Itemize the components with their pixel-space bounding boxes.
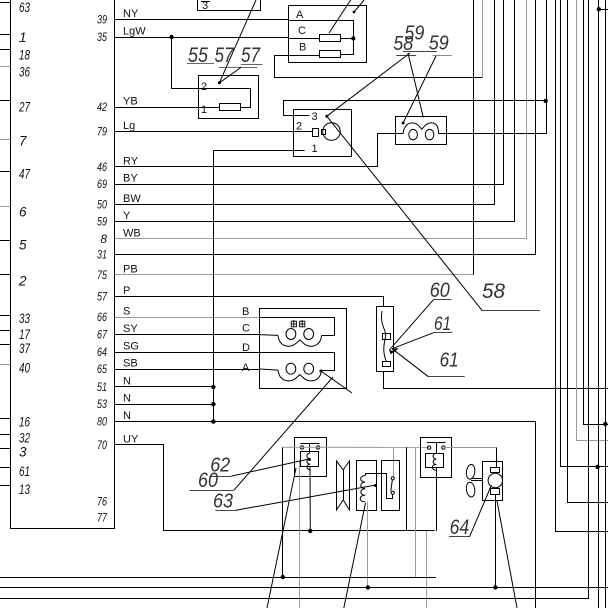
junction dot coil ground	[366, 585, 370, 589]
svg-text:D: D	[242, 342, 250, 354]
svg-text:79: 79	[97, 124, 107, 138]
svg-text:61: 61	[434, 314, 451, 335]
main relay contact stem	[309, 444, 311, 453]
svg-text:7: 7	[19, 134, 27, 149]
arrowhead at throttle switch 61	[392, 348, 399, 352]
junction dot main relay UY	[308, 529, 312, 533]
fan shaft line 2	[471, 480, 483, 482]
wire N pin53	[115, 404, 214, 406]
svg-text:C: C	[298, 25, 306, 37]
flasher coil right stub	[438, 133, 446, 135]
junction dot N80	[211, 419, 215, 423]
svg-text:2: 2	[296, 121, 302, 133]
bus wire exit y531 from v555	[556, 0, 608, 532]
ECU left pin stub wire y=364	[0, 364, 11, 366]
svg-text:18: 18	[19, 48, 30, 63]
svg-text:8: 8	[100, 232, 107, 246]
wire C to resistor	[289, 38, 320, 40]
gray riser of B path	[482, 0, 484, 78]
svg-text:6: 6	[19, 205, 27, 220]
svg-text:B: B	[299, 42, 306, 54]
leader dot flasher	[402, 122, 405, 125]
main relay terminal circle L	[300, 446, 303, 449]
leader 62 to main relay coil	[231, 459, 309, 476]
svg-text:1: 1	[201, 104, 207, 116]
leader 57 short	[219, 67, 241, 82]
resistor box 55 outline	[199, 76, 259, 119]
ECU left pin stub wire y=274	[0, 274, 11, 276]
label 58 underline2	[396, 55, 416, 57]
svg-text:Y: Y	[123, 210, 131, 222]
resistor R-C	[320, 35, 341, 42]
svg-text:60: 60	[430, 279, 450, 302]
flasher coil loop 1	[409, 129, 418, 139]
fan shaft line 1	[471, 478, 483, 480]
label 64 underline	[449, 536, 470, 538]
svg-text:3: 3	[19, 445, 27, 460]
ignition coil box outline	[357, 461, 377, 511]
svg-text:N: N	[123, 410, 131, 422]
lamp pin2 square contact	[313, 129, 319, 137]
top connector box (cut)	[198, 0, 261, 11]
junction dot N53	[211, 402, 215, 406]
junction dot exit y424	[603, 422, 607, 426]
svg-text:65: 65	[97, 362, 107, 376]
leader into box ACB from top	[355, 0, 365, 12]
ignition coil winding	[360, 476, 365, 502]
main relay terminal circle R	[316, 446, 319, 449]
svg-text:LgW: LgW	[123, 26, 146, 38]
leader 61 small	[392, 333, 433, 349]
svg-text:2: 2	[18, 274, 27, 289]
svg-text:YB: YB	[123, 96, 138, 108]
svg-text:C: C	[242, 323, 250, 335]
fan relay coil	[432, 453, 436, 470]
ECU left pin stub wire y=34	[0, 34, 11, 36]
ignition points feed gray drop	[393, 447, 395, 477]
svg-text:77: 77	[97, 511, 108, 525]
svg-text:BY: BY	[123, 173, 138, 185]
leader 57 long diagonal from top	[219, 0, 256, 83]
points lower contact circle	[391, 491, 394, 494]
svg-text:61: 61	[440, 350, 459, 372]
svg-text:5: 5	[19, 238, 27, 253]
ignition coil top wire to points	[366, 474, 393, 499]
wire YB pin42 to box55 pin1	[115, 107, 220, 109]
ECU left pin stub wire y=2	[0, 2, 11, 4]
fan relay wire to UY line	[436, 467, 438, 531]
svg-text:A: A	[242, 362, 250, 374]
label 57 second underline	[241, 64, 263, 66]
bus wire exit y503 from v567	[568, 0, 608, 503]
fan motor feed drop	[496, 447, 498, 467]
svg-text:A: A	[296, 9, 304, 21]
label 60 underline	[190, 490, 234, 492]
svg-text:2: 2	[201, 81, 207, 93]
ECU left pin stub wire y=344.5	[0, 344, 11, 346]
svg-text:59: 59	[97, 215, 107, 229]
points upper contact circle	[391, 477, 394, 480]
label 58 big underline	[481, 310, 540, 312]
junction dot feed rail	[281, 575, 285, 579]
svg-text:63: 63	[19, 0, 30, 15]
fan relay coil frame	[426, 454, 444, 468]
leader 60 big to throttle switch	[389, 299, 433, 350]
ECU left pin stub wire y=330.5	[0, 330, 11, 332]
svg-text:3: 3	[312, 111, 318, 123]
svg-text:UY: UY	[123, 433, 139, 445]
main relay coil frame	[301, 452, 319, 467]
resistor R55	[220, 104, 241, 111]
label 59 right underline	[433, 55, 452, 57]
wire BY pin69	[115, 0, 504, 185]
wire SB pin65	[115, 369, 260, 371]
svg-text:BW: BW	[123, 193, 141, 205]
svg-text:50: 50	[97, 197, 107, 211]
svg-text:66: 66	[97, 310, 107, 324]
leader dot 62	[308, 458, 311, 461]
flasher right wire	[446, 0, 547, 134]
svg-text:39: 39	[97, 13, 107, 27]
leader into box ACB second diagonal	[329, 0, 351, 33]
svg-text:37: 37	[19, 341, 30, 356]
svg-text:RY: RY	[123, 155, 139, 167]
wire PB vertical up	[473, 0, 475, 275]
wire SY pin67	[115, 334, 260, 336]
lamp pin3 stub	[284, 115, 310, 117]
fan relay terminal circle R	[442, 446, 445, 449]
bus wire exit y9 from v598	[599, 9, 608, 11]
label 62 underline	[210, 476, 232, 478]
leader dot in box55	[218, 81, 221, 84]
junction dot ACB	[351, 36, 355, 40]
bus gray wire exit y440	[577, 0, 608, 441]
ECU left pin stub wire y=485.5	[0, 485, 11, 487]
wire P below switch to bottom run	[384, 371, 608, 389]
label 61 big underline	[428, 376, 464, 378]
svg-text:N: N	[123, 393, 131, 405]
svg-text:46: 46	[97, 160, 107, 174]
ECU left pin stub wire y=448.5	[0, 448, 11, 450]
junction dot N51	[211, 385, 215, 389]
stepper idle coil upper	[286, 329, 296, 340]
label 57 bracket line	[219, 67, 257, 69]
junction dot exit y9	[597, 7, 601, 11]
stepper C wire into coil	[260, 334, 278, 337]
svg-text:42: 42	[97, 100, 107, 114]
wire BW pin50	[115, 0, 495, 205]
svg-text:53: 53	[97, 397, 107, 411]
ECU left pin stub wire y=467.5	[0, 467, 11, 469]
leader 60 to stepper coil	[234, 377, 333, 490]
stepper inner top path	[260, 318, 335, 336]
bus wire exit y424 from v583	[584, 0, 608, 425]
relay box ACB outline	[289, 6, 367, 63]
N tie vertical from lamp pin1	[213, 150, 215, 421]
svg-text:64: 64	[97, 345, 107, 359]
lamp bulb circle	[323, 123, 341, 141]
ground rail 1	[0, 577, 436, 579]
svg-text:75: 75	[97, 268, 107, 282]
svg-text:1: 1	[312, 143, 318, 155]
junction dot exit y467	[595, 465, 599, 469]
wire N pin51	[115, 386, 214, 388]
svg-text:P: P	[123, 285, 130, 297]
svg-text:PB: PB	[123, 263, 138, 275]
wire B path to gray riser	[275, 56, 483, 78]
lamp pin3 riser	[284, 101, 546, 116]
svg-text:16: 16	[19, 414, 30, 429]
wire resistor R-B up to junction	[341, 39, 354, 55]
points box outline	[382, 461, 400, 511]
wire B to resistor	[289, 55, 320, 57]
wire PB pin75 (gray)	[115, 274, 474, 276]
main relay contact bar	[300, 443, 319, 445]
svg-text:64: 64	[450, 516, 470, 539]
wire NY pin39	[115, 19, 289, 21]
svg-text:51: 51	[97, 380, 107, 394]
ECU left pin stub wire y=206	[0, 206, 11, 208]
leader 61 big	[392, 349, 428, 377]
throttle switch lower contact	[383, 362, 391, 367]
ECU left pin stub wire y=66	[0, 66, 11, 68]
junction dot on LgW wire	[169, 35, 173, 39]
main relay coil	[307, 453, 310, 470]
leader dot 63	[374, 484, 377, 487]
bus vertical v605	[605, 0, 607, 608]
label 61 small underline	[433, 332, 452, 334]
svg-text:13: 13	[19, 482, 30, 497]
ECU left pin stub wire y=434	[0, 434, 11, 436]
fan motor feed gray	[443, 447, 496, 449]
svg-text:35: 35	[97, 30, 107, 44]
flasher box outline	[396, 117, 447, 145]
svg-text:S: S	[123, 306, 130, 318]
lamp box outline	[294, 110, 352, 157]
leader 63 to ignition coil	[236, 485, 376, 510]
wire resistor R-C to junction	[341, 38, 354, 40]
wire WB pin8 (gray)	[115, 0, 527, 239]
wire S pin66 (gray)	[115, 317, 260, 319]
horn right blade	[343, 461, 349, 510]
lamp pin1 wire to N tie	[213, 150, 304, 152]
throttle switch upper contact	[383, 334, 391, 340]
label 60 big underline	[434, 299, 452, 301]
leader continuation through stepper corner	[321, 371, 352, 393]
fan relay box outline	[421, 438, 452, 478]
horn center line	[343, 470, 345, 500]
coil feed drop to UY line	[406, 447, 408, 531]
svg-text:57: 57	[241, 44, 261, 67]
svg-text:61: 61	[19, 464, 30, 479]
ECU left pin stub wire y=100	[0, 100, 11, 102]
main relay box outline	[295, 438, 327, 477]
branch wire LgW down to box55 pin2	[172, 37, 199, 89]
wire Lg pin79 to lamp box pin2	[115, 131, 313, 133]
svg-text:36: 36	[19, 65, 30, 80]
wire pin31	[115, 0, 536, 255]
stepper box outline	[260, 309, 347, 389]
ECU left pin stub wire y=49	[0, 49, 11, 51]
leader 59 top to flasher box	[408, 53, 423, 118]
ECU left pin stub wire y=240	[0, 240, 11, 242]
fan motor brush top	[491, 468, 500, 473]
junction dot lamp3 bus	[544, 99, 548, 103]
resistor R-B	[320, 51, 341, 58]
svg-text:31: 31	[97, 247, 107, 261]
ground rail 2	[0, 587, 608, 589]
stepper A wire into coil	[260, 369, 278, 370]
fan motor brush bottom	[491, 489, 500, 495]
ignition feed gray wire	[283, 446, 429, 448]
fan relay contact stem	[436, 442, 438, 453]
svg-text:57: 57	[97, 290, 108, 304]
leader dot ACB	[353, 11, 356, 14]
svg-text:33: 33	[19, 311, 30, 326]
svg-text:B: B	[242, 306, 249, 318]
svg-text:SB: SB	[123, 358, 138, 370]
leader dot 58 lamp	[325, 115, 328, 118]
ECU left pin stub wire y=418	[0, 418, 11, 420]
stepper idle coil lower	[286, 363, 296, 374]
ignition coil bottom gray wire	[367, 502, 369, 588]
bus vertical v598	[598, 0, 600, 608]
box55 internal wire pin2	[199, 89, 251, 108]
ignition coil leader to off-canvas	[344, 503, 366, 608]
stepper inner lower path	[260, 353, 335, 371]
wire LgW pin35	[115, 37, 289, 39]
throttle switch outline	[377, 307, 394, 372]
junction dot motor ground	[493, 585, 497, 589]
ECU left pin stub wire y=139	[0, 139, 11, 141]
svg-text:63: 63	[213, 491, 233, 513]
svg-text:WB: WB	[123, 227, 141, 239]
fan relay terminal circle L	[427, 446, 430, 449]
leader 64 to motor	[470, 486, 492, 537]
leader 58 to lamp	[327, 53, 410, 116]
points breaker arm	[391, 480, 393, 491]
fan propeller blade top	[465, 464, 475, 480]
fan motor box	[483, 462, 503, 501]
svg-text:17: 17	[19, 327, 30, 342]
svg-text:SY: SY	[123, 323, 138, 335]
wire SG pin64	[115, 352, 260, 354]
svg-text:N: N	[123, 375, 131, 387]
arrowhead at throttle switch 60	[389, 350, 395, 354]
fan relay gray ground wire	[415, 448, 417, 577]
horn left blade	[337, 461, 344, 510]
leader 58 big from lamp	[327, 116, 482, 310]
svg-text:27: 27	[18, 100, 30, 115]
svg-text:67: 67	[97, 328, 108, 342]
ECU left pin stub wire y=171	[0, 171, 11, 173]
lamp pin1 internal stub	[293, 150, 305, 152]
wire N pin80 to ground bus	[115, 422, 536, 608]
wire RY pin46	[115, 134, 396, 167]
svg-text:Lg: Lg	[123, 120, 135, 132]
wire A internal	[289, 21, 354, 39]
ECU connector block outline	[11, 0, 115, 529]
flasher coil loop 2	[425, 129, 434, 139]
main relay gray ground wire	[299, 460, 301, 608]
bus wire exit y467 from v561	[561, 0, 608, 467]
fan motor circle	[488, 473, 502, 487]
ECU left pin stub wire y=315	[0, 315, 11, 317]
wire UY pin70	[115, 445, 435, 531]
wire P pin57 to throttle switch	[115, 297, 384, 307]
svg-text:SG: SG	[123, 341, 139, 353]
fan motor bottom wire	[495, 495, 497, 588]
feed vertical from rail	[282, 447, 284, 577]
horn leader to off-canvas	[267, 468, 296, 608]
wire Y pin59	[115, 0, 515, 222]
leader from motor off-canvas	[497, 501, 517, 608]
throttle switch wiper curve	[381, 311, 386, 362]
svg-text:32: 32	[19, 430, 30, 445]
label 58 underline	[403, 51, 437, 53]
svg-text:69: 69	[97, 177, 107, 191]
svg-text:80: 80	[97, 415, 107, 429]
label 55 underline	[187, 63, 214, 65]
svg-text:76: 76	[97, 495, 107, 509]
svg-text:58: 58	[482, 280, 505, 303]
stepper chinese label stroke group	[291, 320, 305, 327]
lamp bulb left square	[322, 130, 326, 135]
svg-text:NY: NY	[123, 8, 139, 20]
leader dot stepper coil	[319, 370, 322, 373]
fan propeller blade bottom	[465, 482, 475, 498]
flasher coil arcs	[403, 123, 438, 134]
pin 3 overline	[201, 1, 210, 3]
main relay wire to UY line	[309, 467, 311, 531]
leader 59 right to flasher coil	[403, 56, 436, 123]
gray ground wire right	[426, 531, 428, 608]
fan relay contact bar	[427, 442, 446, 444]
svg-text:70: 70	[97, 438, 107, 452]
svg-text:1: 1	[19, 30, 27, 45]
svg-text:40: 40	[19, 361, 30, 376]
svg-text:47: 47	[19, 167, 30, 182]
flasher coil left stub	[395, 133, 403, 135]
svg-text:60: 60	[198, 469, 218, 492]
label 63 underline	[215, 510, 236, 512]
